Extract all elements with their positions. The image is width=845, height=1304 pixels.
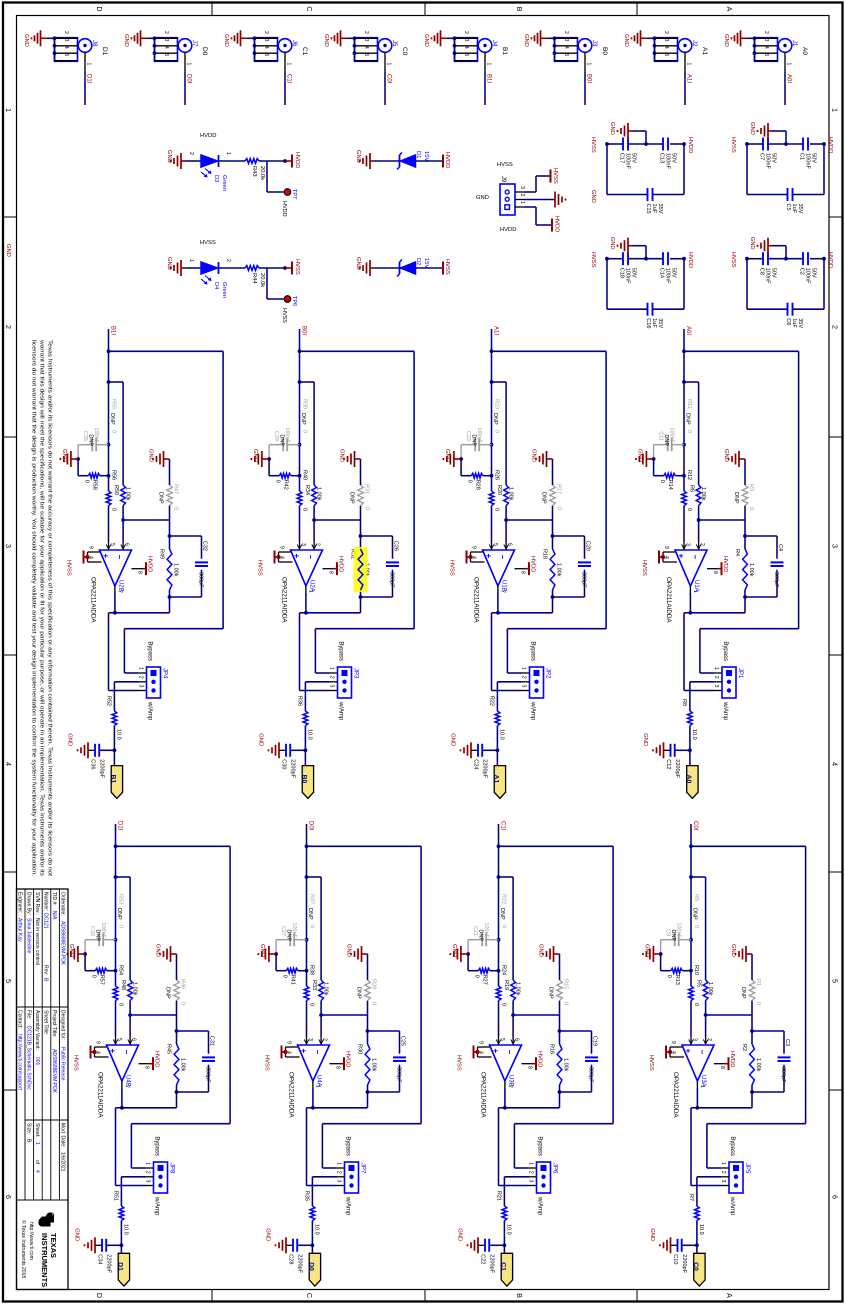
svg-text:Sima Jalaledine: Sima Jalaledine xyxy=(25,918,31,954)
svg-text:8: 8 xyxy=(144,1066,150,1069)
svg-text:4: 4 xyxy=(63,46,69,49)
svg-text:R45: R45 xyxy=(166,1044,172,1054)
svg-text:10.0: 10.0 xyxy=(506,1224,512,1235)
svg-text:6: 6 xyxy=(131,1038,137,1041)
svg-text:warrant that this design will: warrant that this design will meet the s… xyxy=(39,340,45,877)
svg-text:0: 0 xyxy=(686,508,692,511)
svg-text:300pF: 300pF xyxy=(205,1067,211,1083)
svg-text:Bypass: Bypass xyxy=(147,641,153,661)
svg-text:−: − xyxy=(122,1050,131,1055)
svg-text:1: 1 xyxy=(686,63,692,66)
svg-text:HVSS: HVSS xyxy=(264,1055,270,1071)
svg-text:50V: 50V xyxy=(631,268,637,278)
svg-text:HVDD: HVDD xyxy=(827,137,833,153)
svg-text:−: − xyxy=(115,555,124,560)
svg-text:C18: C18 xyxy=(619,268,625,278)
svg-text:4: 4 xyxy=(4,762,13,766)
svg-text:R7: R7 xyxy=(688,1194,694,1201)
svg-text:10.0: 10.0 xyxy=(691,729,697,740)
svg-text:8: 8 xyxy=(719,1066,725,1069)
svg-text:1: 1 xyxy=(386,63,392,66)
svg-text:GND: GND xyxy=(155,944,161,957)
svg-text:GND: GND xyxy=(355,257,361,270)
svg-text:1: 1 xyxy=(786,63,792,66)
svg-text:GND: GND xyxy=(476,195,489,201)
svg-text:DNP: DNP xyxy=(740,987,746,999)
svg-text:HVSS: HVSS xyxy=(444,259,450,275)
svg-text:4: 4 xyxy=(663,46,669,49)
svg-text:GND: GND xyxy=(258,733,264,746)
svg-text:0: 0 xyxy=(309,925,315,928)
svg-text:J9: J9 xyxy=(500,176,506,183)
svg-text:6: 6 xyxy=(831,1195,840,1199)
svg-text:HVSS: HVSS xyxy=(590,137,596,153)
svg-text:C6: C6 xyxy=(785,318,791,325)
svg-text:GND: GND xyxy=(531,449,537,462)
svg-text:HVDD: HVDD xyxy=(554,216,560,232)
svg-text:8: 8 xyxy=(335,1066,341,1069)
svg-text:HVSS: HVSS xyxy=(449,560,455,576)
svg-text:0: 0 xyxy=(180,1002,186,1005)
svg-text:1.00k: 1.00k xyxy=(748,563,754,577)
svg-text:100nF: 100nF xyxy=(805,153,811,169)
svg-text:Green: Green xyxy=(221,282,227,298)
svg-text:HVSS: HVSS xyxy=(648,1055,654,1071)
svg-text:Sheet Title:: Sheet Title: xyxy=(43,1010,49,1035)
svg-text:B1I: B1I xyxy=(486,74,492,83)
svg-text:C4: C4 xyxy=(777,544,783,551)
svg-text:R19: R19 xyxy=(503,980,509,990)
svg-text:Engineer:: Engineer: xyxy=(17,892,23,913)
svg-text:GND: GND xyxy=(346,944,352,957)
svg-text:3: 3 xyxy=(145,1180,151,1183)
svg-text:HVDD: HVDD xyxy=(537,1051,543,1067)
svg-text:DNP: DNP xyxy=(279,434,285,446)
svg-text:licensors do not warrant that: licensors do not warrant that the design… xyxy=(31,340,37,876)
svg-text:B: B xyxy=(515,7,524,12)
svg-text:B1: B1 xyxy=(110,775,117,784)
svg-text:D1I: D1I xyxy=(117,821,123,831)
svg-text:5: 5 xyxy=(499,1038,505,1041)
svg-text:D4: D4 xyxy=(213,282,219,290)
svg-text:9: 9 xyxy=(663,546,669,549)
svg-text:GND: GND xyxy=(339,449,345,462)
svg-text:R12: R12 xyxy=(686,470,692,480)
svg-text:2200pF: 2200pF xyxy=(106,1254,112,1273)
svg-text:C9: C9 xyxy=(665,929,671,936)
svg-text:2: 2 xyxy=(63,31,69,34)
svg-text:R27: R27 xyxy=(482,975,488,985)
svg-text:0: 0 xyxy=(111,430,117,433)
svg-text:GND: GND xyxy=(642,733,648,746)
svg-text:3: 3 xyxy=(163,39,169,42)
svg-text:0: 0 xyxy=(755,1002,761,1005)
svg-text:1.00k: 1.00k xyxy=(515,982,521,996)
svg-text:DNP: DNP xyxy=(95,929,101,941)
svg-text:TEXAS: TEXAS xyxy=(49,1233,58,1258)
svg-text:ADS8688EVM-PDK: ADS8688EVM-PDK xyxy=(60,921,66,966)
svg-text:5: 5 xyxy=(263,53,269,56)
svg-text:1.00k: 1.00k xyxy=(173,563,179,577)
svg-text:2: 2 xyxy=(713,676,719,679)
svg-text:1uF: 1uF xyxy=(651,204,657,214)
svg-text:Bypass: Bypass xyxy=(154,1136,160,1156)
svg-text:3: 3 xyxy=(831,544,840,548)
svg-text:Bypass: Bypass xyxy=(530,641,536,661)
svg-text:+: + xyxy=(299,1049,308,1054)
svg-text:0: 0 xyxy=(748,507,754,510)
svg-text:N/A: N/A xyxy=(51,911,57,920)
svg-text:HVDD: HVDD xyxy=(338,556,344,572)
svg-text:0: 0 xyxy=(501,1003,507,1006)
svg-text:50V: 50V xyxy=(771,268,777,278)
svg-text:R57: R57 xyxy=(99,975,105,985)
svg-text:C12: C12 xyxy=(665,759,671,769)
svg-text:Bypass: Bypass xyxy=(729,1136,735,1156)
svg-text:10.0: 10.0 xyxy=(499,729,505,740)
svg-text:C0I: C0I xyxy=(692,821,698,831)
svg-text:R30: R30 xyxy=(357,1044,363,1054)
svg-text:3: 3 xyxy=(663,39,669,42)
svg-text:0: 0 xyxy=(84,480,90,483)
svg-text:R46: R46 xyxy=(180,979,186,989)
svg-text:w/Amp: w/Amp xyxy=(147,701,153,721)
svg-text:2: 2 xyxy=(528,1171,534,1174)
svg-text:Sheet:: Sheet: xyxy=(34,1123,40,1137)
svg-text:C35: C35 xyxy=(82,431,88,441)
svg-text:2: 2 xyxy=(322,1038,328,1041)
svg-text:TID #:: TID #: xyxy=(51,892,57,906)
svg-text:Designed for:: Designed for: xyxy=(60,1010,66,1040)
svg-text:100nF: 100nF xyxy=(665,153,671,169)
svg-text:HVDD: HVDD xyxy=(687,252,693,268)
svg-text:0: 0 xyxy=(309,1003,315,1006)
svg-text:HVDD: HVDD xyxy=(345,1051,351,1067)
svg-text:2: 2 xyxy=(521,676,527,679)
svg-text:R23: R23 xyxy=(494,399,500,409)
svg-text:R43: R43 xyxy=(251,166,257,177)
svg-text:1.00k: 1.00k xyxy=(371,1058,377,1072)
svg-text:A1I: A1I xyxy=(493,326,499,335)
svg-text:15V: 15V xyxy=(423,258,429,268)
svg-text:R15: R15 xyxy=(563,979,569,989)
svg-text:HVSS: HVSS xyxy=(73,1055,79,1071)
svg-text:GND: GND xyxy=(61,449,67,462)
svg-text:3: 3 xyxy=(363,39,369,42)
svg-text:1uF: 1uF xyxy=(651,318,657,328)
svg-text:DNP: DNP xyxy=(307,908,313,920)
svg-text:4: 4 xyxy=(263,46,269,49)
svg-text:D1: D1 xyxy=(101,47,108,56)
svg-text:5: 5 xyxy=(109,543,115,546)
svg-text:U2B: U2B xyxy=(118,580,124,592)
svg-text:6: 6 xyxy=(4,1195,13,1199)
svg-text:1: 1 xyxy=(86,63,92,66)
svg-text:B1: B1 xyxy=(501,47,508,55)
svg-text:35V: 35V xyxy=(797,204,803,214)
svg-text:R20: R20 xyxy=(496,485,502,495)
svg-text:OPA2211AIDDA: OPA2211AIDDA xyxy=(281,577,288,623)
svg-text:300pF: 300pF xyxy=(588,1067,594,1083)
svg-text:4: 4 xyxy=(363,46,369,49)
svg-text:HVDD: HVDD xyxy=(687,137,693,153)
svg-text:HVSS: HVSS xyxy=(294,259,300,275)
svg-text:50V: 50V xyxy=(811,153,817,163)
svg-text:1.00k: 1.00k xyxy=(323,982,329,996)
svg-text:GND: GND xyxy=(538,944,544,957)
svg-text:1.00k: 1.00k xyxy=(563,1058,569,1072)
svg-text:5: 5 xyxy=(563,53,569,56)
svg-text:10.0: 10.0 xyxy=(314,1224,320,1235)
svg-text:D0: D0 xyxy=(201,47,208,56)
svg-text:HVDD: HVDD xyxy=(722,556,728,572)
svg-text:http://www.ti.com: http://www.ti.com xyxy=(28,1222,34,1260)
svg-text:C36: C36 xyxy=(90,759,96,769)
svg-text:R35: R35 xyxy=(304,1191,310,1201)
svg-text:2200pF: 2200pF xyxy=(489,1254,495,1273)
svg-text:C1: C1 xyxy=(301,47,308,56)
svg-text:3: 3 xyxy=(329,685,335,688)
svg-text:B0I: B0I xyxy=(586,74,592,83)
svg-text:9: 9 xyxy=(88,546,94,549)
svg-text:R48: R48 xyxy=(120,980,126,990)
svg-text:File:: File: xyxy=(25,1010,31,1019)
svg-text:w/Amp: w/Amp xyxy=(154,1196,160,1216)
svg-text:3: 3 xyxy=(138,685,144,688)
svg-text:OPA2211AIDDA: OPA2211AIDDA xyxy=(665,577,672,623)
svg-text:C0: C0 xyxy=(401,47,408,56)
svg-text:HVSS: HVSS xyxy=(200,240,216,246)
svg-text:HVDD: HVDD xyxy=(827,252,833,268)
svg-text:20.0k: 20.0k xyxy=(259,273,265,287)
svg-text:D1: D1 xyxy=(117,1262,124,1271)
svg-text:R9: R9 xyxy=(693,894,699,901)
svg-text:R22: R22 xyxy=(501,894,507,904)
svg-text:http://www.ti.com/support: http://www.ti.com/support xyxy=(17,1034,23,1090)
svg-text:2: 2 xyxy=(699,543,705,546)
svg-text:2: 2 xyxy=(225,259,231,262)
svg-text:SVN Rev.:: SVN Rev.: xyxy=(34,892,40,915)
svg-text:100nF: 100nF xyxy=(765,268,771,284)
svg-text:HVSS: HVSS xyxy=(281,308,287,323)
svg-text:0: 0 xyxy=(282,975,288,978)
svg-text:U4A: U4A xyxy=(316,1075,322,1087)
svg-text:3: 3 xyxy=(263,39,269,42)
svg-text:HVSS: HVSS xyxy=(641,560,647,576)
svg-text:B0: B0 xyxy=(601,47,608,55)
svg-text:HVDD: HVDD xyxy=(500,227,516,233)
svg-text:2: 2 xyxy=(329,676,335,679)
svg-text:1.00k: 1.00k xyxy=(316,487,322,501)
svg-text:GND: GND xyxy=(623,34,629,47)
svg-text:B1I: B1I xyxy=(110,326,116,335)
svg-text:300pF: 300pF xyxy=(581,572,587,588)
svg-text:U4B: U4B xyxy=(125,1075,131,1087)
svg-text:A0I: A0I xyxy=(786,74,792,83)
svg-text:100nF: 100nF xyxy=(93,427,99,443)
svg-text:R10: R10 xyxy=(693,965,699,975)
svg-text:R51: R51 xyxy=(113,1191,119,1201)
svg-text:HVSS: HVSS xyxy=(456,1055,462,1071)
svg-text:DNP: DNP xyxy=(286,929,292,941)
svg-text:GND: GND xyxy=(67,733,73,746)
svg-text:R26: R26 xyxy=(494,470,500,480)
svg-text:B: B xyxy=(515,1293,524,1298)
svg-text:DNP: DNP xyxy=(478,929,484,941)
svg-text:2: 2 xyxy=(563,31,569,34)
svg-text:JP5: JP5 xyxy=(744,1163,750,1174)
svg-text:+: + xyxy=(101,554,110,559)
svg-text:6: 6 xyxy=(507,543,513,546)
svg-text:R1: R1 xyxy=(755,979,761,986)
svg-text:D: D xyxy=(95,6,104,11)
svg-text:R54: R54 xyxy=(118,965,124,975)
svg-text:20.0k: 20.0k xyxy=(259,166,265,180)
svg-text:2: 2 xyxy=(263,31,269,34)
svg-text:1.00k: 1.00k xyxy=(755,1058,761,1072)
svg-text:2: 2 xyxy=(315,543,321,546)
svg-text:+: + xyxy=(292,554,301,559)
svg-text:3: 3 xyxy=(692,1038,698,1041)
svg-text:R29: R29 xyxy=(371,979,377,989)
svg-text:R11: R11 xyxy=(686,399,692,409)
svg-text:2: 2 xyxy=(336,1171,342,1174)
svg-text:A0I: A0I xyxy=(685,326,691,335)
svg-text:R8: R8 xyxy=(681,699,687,706)
svg-text:1: 1 xyxy=(188,259,194,262)
svg-text:3: 3 xyxy=(463,39,469,42)
svg-text:4: 4 xyxy=(163,46,169,49)
svg-text:0: 0 xyxy=(474,975,480,978)
svg-text:GND: GND xyxy=(355,150,361,163)
svg-text:HVDD: HVDD xyxy=(281,201,287,217)
svg-text:50V: 50V xyxy=(811,268,817,278)
svg-text:2: 2 xyxy=(138,676,144,679)
svg-text:DNP: DNP xyxy=(685,413,691,425)
svg-text:100nF: 100nF xyxy=(625,153,631,169)
svg-text:GND: GND xyxy=(590,190,596,203)
svg-text:HVSS: HVSS xyxy=(497,162,513,168)
svg-text:C7: C7 xyxy=(759,153,765,160)
svg-text:J1: J1 xyxy=(791,40,797,47)
svg-text:DNP: DNP xyxy=(541,492,547,504)
svg-text:R6: R6 xyxy=(689,485,695,492)
svg-text:Assembly Variant:: Assembly Variant: xyxy=(34,1010,40,1050)
svg-text:100nF: 100nF xyxy=(665,268,671,284)
svg-text:OPA2211AIDDA: OPA2211AIDDA xyxy=(97,1072,104,1118)
svg-text:1: 1 xyxy=(720,1162,726,1165)
svg-text:3: 3 xyxy=(519,186,525,189)
svg-text:OPA2211AIDDA: OPA2211AIDDA xyxy=(672,1072,679,1118)
svg-text:R58: R58 xyxy=(92,480,98,490)
svg-text:9: 9 xyxy=(471,546,477,549)
svg-text:DNP: DNP xyxy=(116,908,122,920)
svg-text:GND: GND xyxy=(223,34,229,47)
svg-text:2: 2 xyxy=(188,152,194,155)
svg-text:C28: C28 xyxy=(288,1254,294,1264)
svg-text:C: C xyxy=(305,1293,314,1298)
svg-text:10.0: 10.0 xyxy=(123,1224,129,1235)
svg-text:8: 8 xyxy=(328,571,334,574)
svg-text:GND: GND xyxy=(637,449,643,462)
svg-text:R49: R49 xyxy=(159,549,165,559)
svg-text:100nF: 100nF xyxy=(483,922,489,938)
svg-text:1: 1 xyxy=(528,1162,534,1165)
svg-text:HVDD: HVDD xyxy=(444,152,450,168)
svg-text:U1B: U1B xyxy=(501,580,507,592)
svg-text:C15: C15 xyxy=(645,204,651,214)
svg-text:D2: D2 xyxy=(415,258,421,265)
svg-text:Public Release: Public Release xyxy=(60,1047,66,1081)
svg-text:C23: C23 xyxy=(465,431,471,441)
svg-text:D0: D0 xyxy=(308,1262,315,1271)
svg-text:0: 0 xyxy=(173,507,179,510)
svg-text:1: 1 xyxy=(336,1162,342,1165)
svg-text:C3: C3 xyxy=(784,1039,790,1046)
svg-text:R14: R14 xyxy=(667,480,673,490)
svg-text:−: − xyxy=(698,1050,707,1055)
svg-text:w/Amp: w/Amp xyxy=(345,1196,351,1216)
svg-text:50V: 50V xyxy=(671,153,677,163)
svg-text:2200pF: 2200pF xyxy=(482,759,488,778)
svg-text:C0: C0 xyxy=(692,1262,699,1271)
svg-text:D0I: D0I xyxy=(186,74,192,84)
svg-text:Mod. Date:: Mod. Date: xyxy=(60,1123,66,1147)
svg-text:U1A: U1A xyxy=(693,580,699,592)
svg-text:JP3: JP3 xyxy=(353,668,359,679)
svg-text:0: 0 xyxy=(563,1002,569,1005)
svg-text:300pF: 300pF xyxy=(780,1067,786,1083)
svg-text:0: 0 xyxy=(686,430,692,433)
svg-text:C0I: C0I xyxy=(386,74,392,84)
svg-text:Contact:: Contact: xyxy=(17,1010,23,1029)
svg-text:GND: GND xyxy=(644,944,650,957)
svg-text:GND: GND xyxy=(444,449,450,462)
svg-text:−: − xyxy=(313,1050,322,1055)
svg-text:−: − xyxy=(505,1050,514,1055)
svg-text:9: 9 xyxy=(478,1041,484,1044)
svg-text:1uF: 1uF xyxy=(791,204,797,214)
svg-text:GND: GND xyxy=(23,34,29,47)
svg-text:Rev:: Rev: xyxy=(43,965,49,975)
svg-text:B0I: B0I xyxy=(301,326,307,335)
svg-text:GND: GND xyxy=(252,449,258,462)
svg-text:JP1: JP1 xyxy=(737,668,743,679)
svg-text:C21: C21 xyxy=(472,926,478,936)
svg-text:U2A: U2A xyxy=(309,580,315,592)
svg-text:1.00k: 1.00k xyxy=(707,982,713,996)
svg-text:1: 1 xyxy=(521,667,527,670)
svg-text:DNP: DNP xyxy=(109,413,115,425)
svg-text:DNP: DNP xyxy=(692,908,698,920)
svg-text:GND: GND xyxy=(730,944,736,957)
svg-text:0: 0 xyxy=(302,508,308,511)
svg-text:GND: GND xyxy=(323,34,329,47)
svg-text:1.00k: 1.00k xyxy=(700,487,706,501)
svg-text:R3: R3 xyxy=(748,484,754,491)
svg-text:R36: R36 xyxy=(297,696,303,706)
svg-text:5: 5 xyxy=(63,53,69,56)
svg-text:6: 6 xyxy=(124,543,130,546)
svg-text:OPA2211AIDDA: OPA2211AIDDA xyxy=(473,577,480,623)
svg-text:HVSS: HVSS xyxy=(730,252,736,268)
svg-text:C30: C30 xyxy=(281,759,287,769)
svg-text:R17: R17 xyxy=(556,484,562,494)
svg-text:2: 2 xyxy=(463,31,469,34)
svg-text:R34: R34 xyxy=(304,485,310,495)
svg-text:C20: C20 xyxy=(585,541,591,551)
svg-text:2: 2 xyxy=(4,325,13,329)
